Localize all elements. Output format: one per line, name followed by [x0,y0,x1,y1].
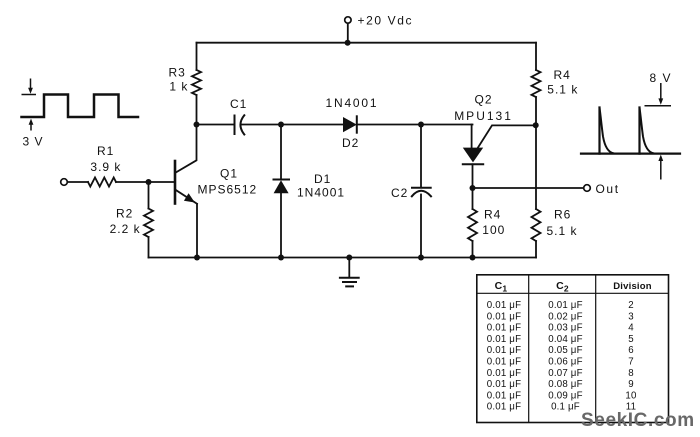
svg-text:MPS6512: MPS6512 [198,182,258,196]
svg-text:0.08 μF: 0.08 μF [548,379,582,390]
svg-text:8 V: 8 V [650,71,673,85]
svg-text:0.01 μF: 0.01 μF [548,300,582,311]
svg-text:0.01 μF: 0.01 μF [487,311,521,322]
svg-text:0.01 μF: 0.01 μF [487,334,521,345]
svg-text:2.2 k: 2.2 k [110,222,141,236]
svg-text:100: 100 [482,223,505,237]
svg-text:D1: D1 [314,172,331,186]
svg-text:1N4001: 1N4001 [297,186,345,200]
svg-text:Out: Out [596,182,620,196]
svg-text:Q1: Q1 [220,167,238,181]
svg-text:0.01 μF: 0.01 μF [487,300,521,311]
svg-text:R4: R4 [554,68,571,82]
svg-text:0.09 μF: 0.09 μF [548,390,582,401]
svg-text:10: 10 [625,390,637,401]
svg-text:9: 9 [628,379,634,390]
svg-text:C2: C2 [391,186,408,200]
svg-text:0.1 μF: 0.1 μF [551,402,580,413]
svg-text:5.1 k: 5.1 k [547,83,578,97]
svg-text:0.01 μF: 0.01 μF [487,368,521,379]
svg-text:SeekIC.com: SeekIC.com [581,410,695,431]
svg-text:MPU131: MPU131 [454,109,513,123]
svg-text:6: 6 [628,345,634,356]
svg-text:0.01 μF: 0.01 μF [487,402,521,413]
svg-text:R1: R1 [97,144,114,158]
svg-text:R4: R4 [484,208,501,222]
svg-text:5: 5 [628,334,634,345]
svg-text:0.01 μF: 0.01 μF [487,323,521,334]
svg-text:0.05 μF: 0.05 μF [548,345,582,356]
svg-text:0.01 μF: 0.01 μF [487,357,521,368]
svg-text:3: 3 [628,311,634,322]
svg-text:0.06 μF: 0.06 μF [548,357,582,368]
svg-text:D2: D2 [342,136,359,150]
svg-text:1 k: 1 k [169,80,188,94]
svg-text:8: 8 [628,368,634,379]
svg-text:R2: R2 [116,207,133,221]
svg-text:3.9 k: 3.9 k [90,160,121,174]
svg-text:C1: C1 [230,97,247,111]
svg-text:Division: Division [613,281,652,292]
svg-text:0.04 μF: 0.04 μF [548,334,582,345]
svg-text:R6: R6 [554,208,571,222]
svg-text:0.07 μF: 0.07 μF [548,368,582,379]
svg-text:+20 Vdc: +20 Vdc [358,14,414,28]
svg-text:7: 7 [628,357,634,368]
svg-text:Q2: Q2 [475,93,493,107]
svg-text:0.01 μF: 0.01 μF [487,345,521,356]
svg-text:3 V: 3 V [23,135,44,149]
svg-text:1N4001: 1N4001 [326,96,379,110]
svg-text:2: 2 [628,300,634,311]
svg-text:R3: R3 [169,66,186,80]
svg-text:5.1 k: 5.1 k [547,224,578,238]
svg-text:4: 4 [628,323,634,334]
svg-text:0.03 μF: 0.03 μF [548,323,582,334]
svg-text:0.01 μF: 0.01 μF [487,390,521,401]
svg-text:0.02 μF: 0.02 μF [548,311,582,322]
svg-text:0.01 μF: 0.01 μF [487,379,521,390]
